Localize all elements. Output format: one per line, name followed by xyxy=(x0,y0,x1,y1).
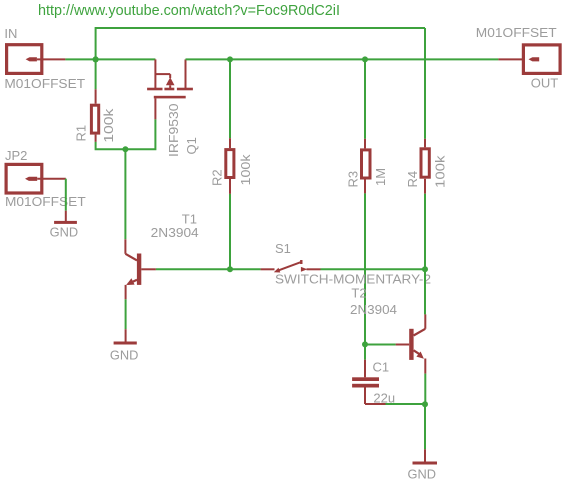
svg-text:T2: T2 xyxy=(351,286,366,301)
svg-text:R3: R3 xyxy=(346,171,361,188)
resistor R1 xyxy=(91,89,98,142)
transistor Q1 IRF9530 P-MOSFET xyxy=(147,59,193,119)
capacitor C1 xyxy=(352,345,385,405)
connector IN xyxy=(7,45,66,74)
junction node H xyxy=(422,401,428,407)
svg-text:GND: GND xyxy=(408,467,437,482)
svg-text:OUT: OUT xyxy=(531,76,559,91)
wire top to R4 xyxy=(424,28,426,139)
wire R4 bottom to T2 collector xyxy=(424,269,426,314)
wire R1 bottom to gate row xyxy=(96,119,156,149)
wire node B down to T1 collector xyxy=(124,149,126,239)
svg-text:IN: IN xyxy=(4,26,17,41)
ground GND under T2 xyxy=(413,449,438,464)
svg-text:S1: S1 xyxy=(275,241,291,256)
wire node A vertical (top wire to R1) xyxy=(95,27,97,89)
junction node C at R2 column top xyxy=(227,56,233,62)
junction node B at T1 collector column xyxy=(122,146,128,152)
resistor R3 xyxy=(362,59,371,344)
connector OUT xyxy=(498,45,560,74)
svg-text:Q1: Q1 xyxy=(184,137,199,154)
wire JP2 pin to GND xyxy=(65,179,67,211)
svg-text:R2: R2 xyxy=(210,169,225,186)
transistor T1 2N3904 NPN (mirrored) xyxy=(125,239,155,299)
junction node E at R2 bottom xyxy=(227,266,233,272)
svg-text:http://www.youtube.com/watch?v: http://www.youtube.com/watch?v=Foc9R0dC2… xyxy=(38,3,340,19)
svg-text:M01OFFSET: M01OFFSET xyxy=(4,76,85,91)
wire top horizontal xyxy=(96,27,425,29)
wire T1 base to switch xyxy=(156,268,261,270)
connector JP2 xyxy=(6,164,66,193)
svg-text:100k: 100k xyxy=(238,154,253,186)
resistor R2 xyxy=(226,59,234,269)
junction node F at R4 bottom / T2 collector xyxy=(422,266,428,272)
wire T2 emitter to node H xyxy=(424,374,426,404)
switch S1 xyxy=(261,260,321,273)
wire MOSFET source to OUT xyxy=(186,58,499,60)
junction node D at R3 column top xyxy=(362,56,368,62)
resistor R4 xyxy=(421,139,429,269)
ground GND under JP2 xyxy=(54,211,77,224)
wire T1 emitter to GND xyxy=(125,299,127,329)
svg-text:100k: 100k xyxy=(433,155,448,188)
junction node G at R3 bottom / C1 top xyxy=(362,341,368,347)
wire T2 base to node G xyxy=(365,344,396,346)
wire node H to GND xyxy=(424,404,426,449)
svg-text:1M: 1M xyxy=(373,168,388,186)
svg-text:R4: R4 xyxy=(405,171,420,188)
svg-text:JP2: JP2 xyxy=(5,148,27,163)
ground GND under T1 xyxy=(114,329,137,344)
svg-text:100k: 100k xyxy=(101,108,116,143)
transistor T2 2N3904 NPN xyxy=(396,314,426,373)
svg-text:R1: R1 xyxy=(74,125,89,142)
junction node A at IN column xyxy=(93,56,99,62)
svg-text:GND: GND xyxy=(50,225,79,240)
svg-text:IRF9530: IRF9530 xyxy=(166,104,181,158)
wire C1 bottom to node H xyxy=(386,403,426,405)
svg-text:GND: GND xyxy=(110,347,138,362)
svg-text:M01OFFSET: M01OFFSET xyxy=(476,25,557,40)
svg-text:C1: C1 xyxy=(373,360,390,375)
svg-text:2N3904: 2N3904 xyxy=(151,225,199,240)
wire switch to R4 column xyxy=(321,268,426,270)
svg-text:2N3904: 2N3904 xyxy=(350,302,397,317)
wire IN pin to MOSFET drain xyxy=(65,58,155,60)
svg-text:M01OFFSET: M01OFFSET xyxy=(5,194,86,209)
svg-text:SWITCH-MOMENTARY-2: SWITCH-MOMENTARY-2 xyxy=(275,272,431,287)
